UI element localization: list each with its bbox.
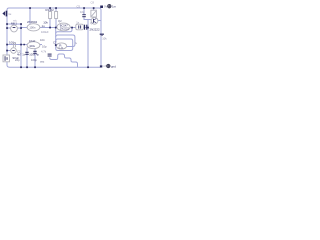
svg-text:100n: 100n <box>9 40 16 44</box>
svg-text:Q3: Q3 <box>90 21 94 25</box>
svg-text:100uF: 100uF <box>41 30 49 34</box>
svg-text:100n: 100n <box>29 53 35 57</box>
svg-text:osc: osc <box>40 61 45 64</box>
svg-text:C8: C8 <box>91 1 95 5</box>
svg-text:10k: 10k <box>102 37 107 41</box>
svg-text:vf: vf <box>103 64 105 68</box>
svg-text:0.1u: 0.1u <box>59 47 64 49</box>
svg-text:Q2: Q2 <box>58 19 62 23</box>
svg-text:R1 R2: R1 R2 <box>46 8 55 12</box>
svg-text:1m: 1m <box>112 5 117 9</box>
svg-text:2N2222: 2N2222 <box>60 27 70 31</box>
svg-text:C5: C5 <box>77 4 81 8</box>
svg-text:4.7k: 4.7k <box>41 50 47 54</box>
svg-text:10p: 10p <box>42 44 47 48</box>
svg-text:100n: 100n <box>29 26 35 30</box>
svg-text:10uF: 10uF <box>29 39 36 43</box>
svg-text:104: 104 <box>40 38 45 42</box>
svg-text:1u: 1u <box>8 12 11 16</box>
svg-text:4p: 4p <box>36 53 39 57</box>
svg-text:2N3904: 2N3904 <box>27 20 38 24</box>
svg-text:C7: C7 <box>53 40 57 44</box>
svg-text:C2: C2 <box>17 50 21 54</box>
svg-text:gnd: gnd <box>111 64 116 68</box>
svg-text:100u: 100u <box>29 44 35 48</box>
svg-text:22p: 22p <box>15 58 20 62</box>
svg-text:1n: 1n <box>22 53 25 57</box>
svg-text:2N2222: 2N2222 <box>90 28 101 32</box>
svg-text:100p: 100p <box>31 58 37 62</box>
svg-text:9V: 9V <box>104 4 107 8</box>
svg-text:10p: 10p <box>80 10 85 14</box>
svg-text:1u: 1u <box>42 24 46 28</box>
